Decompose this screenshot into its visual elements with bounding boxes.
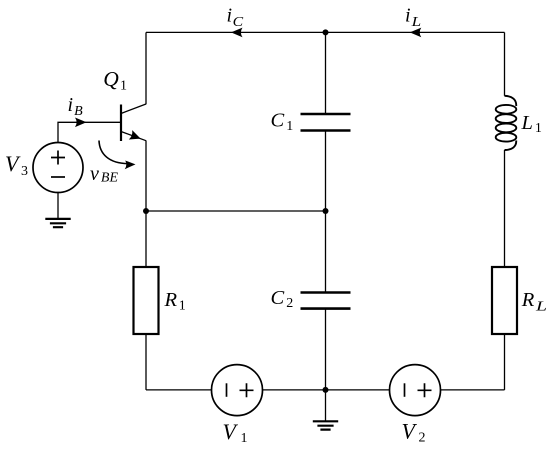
V2 plus sign [418, 383, 432, 397]
wire bottom-left to V1 [146, 389, 212, 391]
node junction dot (bottom rail / ground) [323, 387, 329, 393]
ground (below V3) [45, 219, 70, 227]
V2 minus bar (rotated) [404, 383, 406, 397]
capacitor C1 [301, 114, 351, 131]
V3 plus sign [51, 151, 65, 165]
wire C2 to bottom rail [325, 309, 327, 390]
V1 minus bar (rotated) [226, 383, 228, 397]
arrow i_B current arrow (pointing right) [75, 118, 87, 128]
wire R1 to bottom rail [145, 334, 147, 390]
node junction dot top (C branch / top rail) [323, 29, 329, 35]
resistor R1 [134, 267, 159, 334]
capacitor C2 [301, 293, 351, 309]
wire L1 to RL [504, 150, 506, 267]
wire top-right corner down to L1 [504, 32, 506, 95]
wire collector up to top rail [145, 32, 147, 104]
resistor RL [492, 267, 517, 334]
transistor Q1 emitter arrowhead [129, 130, 141, 139]
arrow i_L current arrow (pointing left) [410, 28, 422, 38]
inductor L1 (coil) [496, 96, 517, 150]
wire top node down to C1 [325, 32, 327, 114]
ground (bottom middle) [313, 421, 338, 429]
voltage source V1 [212, 365, 263, 416]
transistor Q1 collector diagonal [121, 104, 146, 114]
wire top rail [146, 31, 505, 33]
wire C1 to C2 [325, 131, 327, 293]
wire V2 to bottom-right corner [441, 389, 505, 391]
wire V3 top to transistor base [58, 122, 121, 142]
voltage source V2 [390, 365, 441, 416]
v_BE curved arrow [99, 141, 128, 164]
node junction dot (emitter / middle wire) [143, 208, 149, 214]
V1 plus sign [240, 383, 254, 397]
wire emitter down to middle node [145, 141, 147, 212]
transistor Q1 emitter diagonal [121, 132, 146, 141]
V3 minus sign [51, 176, 65, 178]
wire V1 to V2 [263, 389, 390, 391]
wire RL to bottom rail [504, 334, 506, 390]
node junction dot (middle wire / C branch) [323, 208, 329, 214]
arrow i_C current arrow (pointing left) [231, 28, 243, 38]
transistor Q1 (NPN) base bar [120, 105, 122, 142]
wire middle horizontal [146, 210, 326, 212]
wire V3 bottom to ground [57, 193, 59, 219]
wire node to R1 [145, 211, 147, 267]
voltage source V3 [33, 143, 83, 193]
wire node to ground [325, 390, 327, 421]
